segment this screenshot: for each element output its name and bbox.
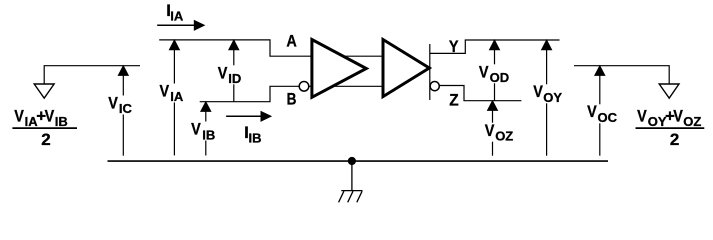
node B label bbox=[287, 90, 297, 109]
voltage arrow V_ID bbox=[217, 39, 244, 102]
svg-text:ID: ID bbox=[228, 71, 241, 86]
voltage arrow V_OY bbox=[532, 39, 564, 156]
voltage arrow V_OZ bbox=[484, 100, 514, 156]
wire common input node bbox=[44, 66, 140, 84]
svg-text:A: A bbox=[286, 32, 296, 50]
svg-text:Y: Y bbox=[449, 38, 459, 56]
junction dot on ground rail bbox=[348, 157, 356, 165]
svg-text:OY: OY bbox=[543, 90, 562, 105]
svg-text:V: V bbox=[160, 82, 170, 100]
wire input B path bbox=[200, 86, 383, 101]
label fraction (V_IA+V_IB)/2 bbox=[12, 107, 77, 149]
voltage arrow V_OC bbox=[586, 65, 618, 156]
svg-text:V: V bbox=[533, 83, 543, 101]
svg-text:Z: Z bbox=[449, 91, 459, 110]
svg-text:V: V bbox=[587, 103, 597, 121]
output stub vertical wire bbox=[429, 44, 431, 100]
wire output Y path bbox=[430, 40, 560, 53]
open arrow left (input common reference) bbox=[34, 84, 54, 98]
svg-text:IB: IB bbox=[55, 114, 68, 129]
svg-text:V: V bbox=[45, 108, 55, 126]
ground rail wire bbox=[108, 160, 609, 162]
chassis ground symbol bbox=[339, 161, 363, 202]
current label I_IA bbox=[166, 1, 184, 23]
voltage arrow V_IA bbox=[159, 39, 187, 155]
svg-text:V: V bbox=[673, 108, 683, 126]
buffer U2 bbox=[383, 40, 429, 97]
voltage arrow V_OD bbox=[478, 39, 510, 101]
buffer U1 bbox=[312, 40, 366, 98]
svg-text:V: V bbox=[218, 64, 228, 82]
current arrow I_IB bbox=[226, 111, 272, 122]
svg-text:B: B bbox=[287, 90, 297, 109]
svg-text:IA: IA bbox=[170, 8, 184, 23]
svg-text:IB: IB bbox=[202, 127, 215, 142]
current label I_IB bbox=[244, 123, 261, 146]
wire input A path bbox=[159, 40, 383, 56]
svg-text:OZ: OZ bbox=[495, 129, 513, 144]
voltage arrow V_IB bbox=[190, 101, 216, 156]
svg-text:2: 2 bbox=[41, 130, 50, 149]
output bubble bbox=[430, 82, 439, 91]
voltage arrow V_IC bbox=[107, 65, 134, 156]
svg-text:V: V bbox=[108, 94, 118, 112]
svg-text:OC: OC bbox=[598, 110, 618, 125]
open arrow right (output common reference) bbox=[659, 84, 679, 98]
svg-text:2: 2 bbox=[670, 130, 679, 149]
svg-text:V: V bbox=[479, 63, 489, 81]
wire common output node bbox=[574, 66, 669, 84]
svg-text:V: V bbox=[14, 108, 24, 126]
svg-text:V: V bbox=[191, 121, 201, 139]
node A label bbox=[286, 32, 296, 50]
node Z label bbox=[449, 91, 459, 110]
svg-text:OZ: OZ bbox=[683, 114, 701, 129]
input bubble on B bbox=[299, 82, 309, 92]
label fraction (V_OY+V_OZ)/2 bbox=[636, 107, 705, 149]
wire output Z path bbox=[440, 86, 522, 101]
svg-text:V: V bbox=[637, 108, 647, 126]
svg-text:IB: IB bbox=[249, 130, 262, 145]
node Y label bbox=[449, 38, 459, 56]
svg-text:IA: IA bbox=[170, 89, 184, 104]
svg-text:OD: OD bbox=[490, 70, 510, 85]
svg-text:IC: IC bbox=[119, 101, 133, 116]
svg-text:V: V bbox=[485, 122, 495, 140]
current arrow I_IA bbox=[157, 20, 205, 31]
